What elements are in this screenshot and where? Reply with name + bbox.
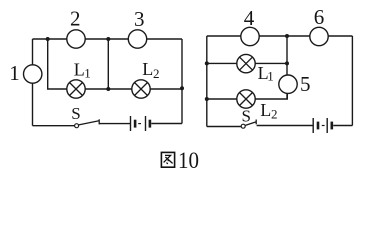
svg-text:10: 10 [178,148,199,173]
svg-text:1: 1 [267,69,274,84]
svg-text:2: 2 [271,106,278,121]
svg-text:1: 1 [9,61,20,85]
svg-text:1: 1 [84,65,91,80]
svg-text:3: 3 [134,7,145,31]
svg-text:S: S [241,107,250,126]
svg-text:6: 6 [314,5,325,29]
svg-text:2: 2 [153,66,160,81]
svg-text:L: L [142,59,153,79]
svg-text:L: L [74,60,85,80]
svg-text:5: 5 [300,72,311,96]
svg-text:S: S [71,104,80,123]
svg-text:2: 2 [70,6,81,30]
svg-text:L: L [260,100,271,120]
svg-text:4: 4 [244,6,255,30]
